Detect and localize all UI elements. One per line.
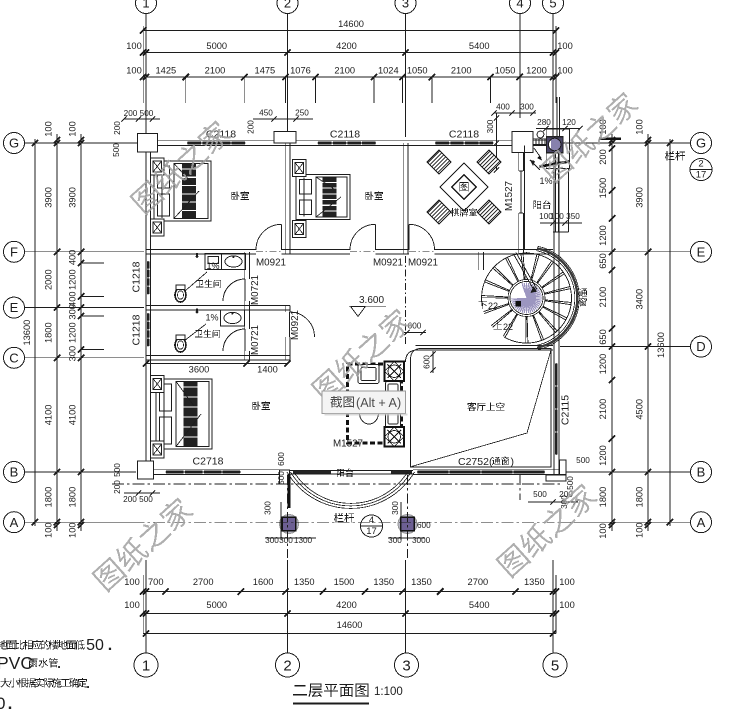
svg-text:2700: 2700 xyxy=(193,577,214,587)
svg-text:1425: 1425 xyxy=(156,66,177,76)
window C2118 bedroom2 xyxy=(318,141,377,146)
bedroom1 nightstand top xyxy=(151,158,165,175)
window C1218 bathroom1 xyxy=(146,261,151,295)
bedroom1 nightstand bottom xyxy=(151,219,165,236)
svg-text:C1218: C1218 xyxy=(131,261,143,292)
svg-text:A: A xyxy=(10,515,19,530)
balcony door opening bottom wall xyxy=(290,470,413,475)
svg-text:500: 500 xyxy=(576,456,590,465)
spiral stair entry line xyxy=(526,252,528,253)
exterior wall top (axis G) xyxy=(146,140,559,142)
svg-text:400: 400 xyxy=(496,103,510,112)
svg-text:2000: 2000 xyxy=(44,269,54,290)
svg-text:3400: 3400 xyxy=(635,289,645,310)
svg-text:M0721: M0721 xyxy=(250,275,261,305)
bathroom1 floor drain xyxy=(196,255,199,258)
svg-text:1400: 1400 xyxy=(257,365,278,375)
window C2718 bedroom3 xyxy=(166,470,241,475)
top dimension row detail xyxy=(143,76,556,78)
interior wall axis D living room top xyxy=(416,344,554,346)
svg-text:M0921: M0921 xyxy=(290,310,301,340)
svg-text:4200: 4200 xyxy=(336,41,357,51)
bed pillows xyxy=(300,180,312,195)
svg-text:G: G xyxy=(9,136,19,151)
svg-text:120: 120 xyxy=(562,118,576,127)
left dimension chain major xyxy=(56,134,58,531)
grid line A left xyxy=(25,521,136,523)
bottom dimension row total 14600 xyxy=(143,633,556,635)
svg-text:2: 2 xyxy=(283,657,291,674)
svg-text:1200: 1200 xyxy=(598,225,608,246)
hall dimension 3600 1400 xyxy=(146,363,288,365)
svg-text:4100: 4100 xyxy=(44,405,54,426)
svg-text:1:100: 1:100 xyxy=(374,686,403,698)
svg-text:A: A xyxy=(697,515,706,530)
axis bubble C left xyxy=(4,347,25,368)
svg-text:3900: 3900 xyxy=(68,187,78,208)
grid line F left xyxy=(25,251,144,253)
balcony label bottom xyxy=(337,469,354,477)
svg-text:1076: 1076 xyxy=(290,66,311,76)
svg-text:.: . xyxy=(108,637,112,654)
laundry grille bars xyxy=(534,138,547,140)
svg-text:100: 100 xyxy=(68,522,78,538)
svg-text:22: 22 xyxy=(503,322,513,332)
svg-text:M0921: M0921 xyxy=(408,258,438,269)
svg-text:3600: 3600 xyxy=(189,365,210,375)
svg-text:200: 200 xyxy=(247,120,256,134)
watermark bottom-left xyxy=(90,494,195,593)
bed quilt dark stripes xyxy=(182,164,196,219)
bed outline xyxy=(154,161,211,221)
speaker box bottom xyxy=(385,427,405,447)
axis bubble D right xyxy=(691,336,712,357)
railing thick mark on G line right xyxy=(599,137,621,139)
axis bubble F left xyxy=(4,241,25,262)
svg-text:C2118: C2118 xyxy=(330,129,360,141)
svg-text:1600: 1600 xyxy=(253,577,274,587)
svg-text:3900: 3900 xyxy=(44,187,54,208)
svg-text:1200: 1200 xyxy=(68,269,78,290)
door M0721 bathroom2 opening xyxy=(244,329,250,351)
svg-text:1500: 1500 xyxy=(598,178,608,199)
bathroom2 sink xyxy=(221,310,245,326)
svg-text:1: 1 xyxy=(142,657,150,674)
axis bubble 2 top xyxy=(277,0,298,14)
sitting area dashed border xyxy=(348,364,402,443)
door M0921 game room opening xyxy=(409,249,435,255)
window C2115 living room right xyxy=(554,363,559,455)
svg-text:E: E xyxy=(10,300,19,315)
svg-text:500: 500 xyxy=(277,471,286,485)
svg-text:650: 650 xyxy=(598,329,608,345)
svg-text:250: 250 xyxy=(295,109,309,118)
spiral stair center fan xyxy=(511,283,542,314)
svg-text:5: 5 xyxy=(549,0,556,11)
svg-text:5: 5 xyxy=(551,657,559,674)
svg-text:): ) xyxy=(511,456,515,468)
svg-text:C2115: C2115 xyxy=(560,395,572,425)
axis bubble 5 top xyxy=(543,0,564,14)
svg-text:1350: 1350 xyxy=(411,577,432,587)
right dimension chain 13600 xyxy=(669,139,671,526)
axis bubble A right xyxy=(691,512,712,533)
svg-text:50: 50 xyxy=(86,637,104,654)
svg-text:300: 300 xyxy=(520,103,534,112)
svg-text:600: 600 xyxy=(277,452,286,466)
bathroom1 counter xyxy=(205,254,222,270)
svg-text:100: 100 xyxy=(557,66,573,76)
svg-text:1300: 1300 xyxy=(294,536,313,545)
svg-text:300: 300 xyxy=(388,536,402,545)
living room void diagonal xyxy=(412,350,552,467)
slope arrow top right balcony xyxy=(534,148,541,158)
bedroom1 label xyxy=(231,191,249,200)
interior wall axis 4 game room right xyxy=(518,143,520,254)
bed outline xyxy=(296,175,350,220)
bottom dimension row 5000 4200 5400 xyxy=(143,613,556,615)
svg-text:1%: 1% xyxy=(205,313,218,323)
door M0721 bathroom1 opening xyxy=(244,279,250,301)
right dimension chain detail xyxy=(611,134,613,531)
svg-text:4100: 4100 xyxy=(68,405,78,426)
svg-text:200: 200 xyxy=(123,495,137,504)
svg-text:2100: 2100 xyxy=(334,66,355,76)
grid line E right xyxy=(560,251,690,253)
svg-text:100: 100 xyxy=(124,577,140,587)
svg-text:1050: 1050 xyxy=(407,66,428,76)
interior wall stair room left xyxy=(478,252,480,270)
svg-text:300: 300 xyxy=(265,536,279,545)
bed quilt dark stripes xyxy=(322,177,336,217)
axis bubble A left xyxy=(4,512,25,533)
svg-text:2: 2 xyxy=(698,159,703,170)
svg-text:5400: 5400 xyxy=(469,41,490,51)
svg-text:100: 100 xyxy=(559,577,575,587)
grid line D right xyxy=(560,346,690,348)
bedroom3 label xyxy=(252,401,270,410)
column axis3 xyxy=(398,515,417,534)
axis bubble 4 top xyxy=(510,0,531,14)
grid line C left xyxy=(25,357,144,359)
axis bubble 2 bottom xyxy=(276,653,300,677)
vertical dash-dot axis2 bottom xyxy=(287,475,289,558)
svg-text:1350: 1350 xyxy=(524,577,545,587)
svg-text:14600: 14600 xyxy=(338,19,364,29)
svg-text:100: 100 xyxy=(559,600,575,610)
svg-text:17: 17 xyxy=(366,526,377,537)
bathroom1 sink xyxy=(222,254,246,270)
svg-text:500: 500 xyxy=(112,143,121,157)
svg-text:(Alt + A): (Alt + A) xyxy=(356,396,401,410)
window C2118 bedroom1 xyxy=(187,141,246,146)
left chain connector ticks to wall xyxy=(81,262,104,264)
floor drain top right xyxy=(537,131,544,138)
grid line A right xyxy=(560,521,690,523)
svg-text:2100: 2100 xyxy=(205,66,226,76)
pier bottom right corner xyxy=(560,460,566,481)
interior wall corridor axis 2 lower xyxy=(284,305,286,360)
door M1527 game room east opening xyxy=(518,171,524,213)
svg-text:2100: 2100 xyxy=(451,66,472,76)
svg-text:.: . xyxy=(57,656,61,671)
svg-text:B: B xyxy=(697,465,706,480)
bed fold line xyxy=(316,197,341,217)
svg-text:17: 17 xyxy=(696,170,707,181)
bottom dimension row detail xyxy=(143,591,556,593)
svg-text:0: 0 xyxy=(0,694,5,711)
exterior wall left (axis 1) xyxy=(145,141,147,475)
svg-text:1800: 1800 xyxy=(68,487,78,508)
note text line1 xyxy=(0,640,85,650)
axis bubble E left xyxy=(4,297,25,318)
svg-text:200: 200 xyxy=(113,480,122,494)
svg-text:4: 4 xyxy=(516,0,523,11)
screenshot tooltip text xyxy=(330,396,354,408)
watermark top-left xyxy=(128,117,233,216)
svg-text:1024: 1024 xyxy=(378,66,399,76)
bathroom2 label xyxy=(195,330,220,338)
bathroom2 floor drain xyxy=(196,311,199,314)
bedroom2 nightstand top xyxy=(293,160,307,177)
grid line E left xyxy=(25,307,144,309)
interior wall axis 2 bedrooms xyxy=(284,143,286,254)
railing label bottom xyxy=(334,513,354,523)
axis bubble 1 bottom xyxy=(134,653,158,677)
interior wall bathroom right xyxy=(244,252,246,360)
note text line3 xyxy=(0,678,87,688)
svg-text:22: 22 xyxy=(488,301,498,311)
pier bottom-left corner xyxy=(138,461,154,479)
axis 3 dash-dot in hall xyxy=(405,256,407,344)
grid line G left xyxy=(25,142,144,144)
svg-text:1800: 1800 xyxy=(44,487,54,508)
svg-text:4: 4 xyxy=(369,515,374,526)
axis bubble E right xyxy=(691,241,712,262)
svg-text:13600: 13600 xyxy=(656,332,666,358)
svg-text:1%: 1% xyxy=(539,176,552,186)
axis line 3 top xyxy=(405,14,407,137)
balcony divider dark line xyxy=(288,474,291,508)
living room void boundary xyxy=(411,349,552,468)
laundry niche outline xyxy=(546,129,569,169)
interior wall axis 3 xyxy=(402,143,404,254)
svg-text:100: 100 xyxy=(635,522,645,538)
right dimension chain major xyxy=(647,134,649,531)
speaker box top xyxy=(385,362,405,382)
svg-text:.: . xyxy=(8,694,13,711)
door M0921 hall west opening xyxy=(284,312,290,337)
svg-text:100: 100 xyxy=(124,600,140,610)
pier bottom axis2 balcony xyxy=(280,470,290,484)
living room label xyxy=(467,402,504,411)
svg-text:PVC: PVC xyxy=(0,653,33,673)
pier top-left corner xyxy=(138,134,158,153)
axis line 2 top xyxy=(287,14,289,137)
vertical dash-dot axis3 bottom xyxy=(407,475,409,558)
left dimension chain detail xyxy=(80,134,82,531)
mahjong table xyxy=(440,163,488,211)
svg-text:D: D xyxy=(696,339,705,354)
axis bubble G left xyxy=(4,133,25,154)
svg-text:100: 100 xyxy=(550,212,564,221)
svg-text:5000: 5000 xyxy=(206,41,227,51)
axis bubble B left xyxy=(4,462,25,483)
watermark bottom-right xyxy=(494,480,599,579)
pier top right near axis4 xyxy=(512,132,533,153)
svg-text:1800: 1800 xyxy=(635,487,645,508)
svg-text:300: 300 xyxy=(68,304,78,320)
axis line 4 top xyxy=(519,14,521,118)
axis bubble 3 top xyxy=(395,0,416,14)
svg-text:M0721: M0721 xyxy=(250,325,261,355)
svg-text:C: C xyxy=(9,350,18,365)
top dimension row 5000 4200 5400 xyxy=(143,52,556,54)
watermark top-right xyxy=(539,89,641,184)
balcony label top right xyxy=(533,200,550,209)
sitting armchair top xyxy=(358,365,379,384)
window through label xyxy=(579,288,588,306)
window C2118 game room xyxy=(435,141,494,146)
svg-text:2100: 2100 xyxy=(598,399,608,420)
interior wall axis E horizontal bathrooms xyxy=(146,304,290,306)
axis line 5 top xyxy=(552,14,554,137)
vertical dash-dot axis4 bottom xyxy=(519,475,521,500)
bathroom2 toilet xyxy=(175,338,186,352)
svg-text:1200: 1200 xyxy=(598,354,608,375)
top right railing lines xyxy=(556,97,558,137)
svg-text:4200: 4200 xyxy=(336,600,357,610)
bed pillows xyxy=(160,384,172,411)
svg-text:600: 600 xyxy=(423,355,432,369)
svg-text:300: 300 xyxy=(391,501,400,515)
sitting couch right xyxy=(386,382,401,428)
svg-text:3: 3 xyxy=(402,0,409,11)
svg-text:100: 100 xyxy=(126,41,142,51)
svg-text:650: 650 xyxy=(598,253,608,269)
svg-text:C2752(: C2752( xyxy=(458,456,493,468)
bed quilt outline xyxy=(174,164,208,219)
svg-text:100: 100 xyxy=(635,119,645,135)
svg-text:B: B xyxy=(10,465,19,480)
svg-text:3.600: 3.600 xyxy=(359,295,384,306)
svg-text:500: 500 xyxy=(533,490,547,499)
bed quilt outline xyxy=(316,177,347,217)
svg-text:F: F xyxy=(10,244,18,259)
bottom axis extension lines xyxy=(145,560,147,653)
svg-text:1: 1 xyxy=(142,0,149,11)
bed outline xyxy=(156,379,212,449)
svg-text:200: 200 xyxy=(113,121,122,135)
bed quilt outline xyxy=(176,382,209,447)
laundry double rail vertical xyxy=(555,153,557,232)
grid line G right xyxy=(560,142,690,144)
svg-text:M0921: M0921 xyxy=(256,258,286,269)
svg-text:100: 100 xyxy=(557,41,573,51)
door M0921 bedroom1 opening xyxy=(256,249,282,255)
balcony top-right inner boundary xyxy=(524,146,526,250)
clothes pole thick line xyxy=(540,162,570,167)
svg-text:2100: 2100 xyxy=(598,287,608,308)
bathroom1 toilet xyxy=(175,288,186,302)
svg-text:13600: 13600 xyxy=(22,320,32,346)
svg-text:2700: 2700 xyxy=(468,577,489,587)
svg-text:1800: 1800 xyxy=(44,322,54,343)
bed fold line xyxy=(174,191,199,219)
watermark center xyxy=(309,305,414,404)
svg-text:300: 300 xyxy=(68,346,78,362)
svg-text:3: 3 xyxy=(402,657,410,674)
svg-text:100: 100 xyxy=(44,121,54,137)
svg-text:100: 100 xyxy=(126,66,142,76)
svg-text:M1527: M1527 xyxy=(333,439,363,450)
living room corner fillet xyxy=(406,350,419,362)
exterior wall right (axis 5) xyxy=(553,141,555,475)
svg-text:G: G xyxy=(696,136,706,151)
svg-text:1350: 1350 xyxy=(294,577,315,587)
window C2752 living room bottom xyxy=(417,470,545,475)
mahjong chairs xyxy=(427,150,451,174)
svg-text:300: 300 xyxy=(279,536,293,545)
svg-text:3000: 3000 xyxy=(412,536,431,545)
svg-text:1350: 1350 xyxy=(373,577,394,587)
pier top mid window bump xyxy=(274,132,296,144)
bed quilt dark stripes xyxy=(183,382,197,447)
title second floor plan xyxy=(293,683,368,697)
bedroom2 nightstand bottom xyxy=(293,221,307,238)
window C1218 bathroom2 xyxy=(146,313,151,347)
bedroom3 nightstand top xyxy=(151,376,165,393)
railing label right xyxy=(665,151,685,161)
interior wall axis F horizontal xyxy=(146,249,553,251)
top dimension extension lines xyxy=(145,77,147,103)
svg-text:300: 300 xyxy=(486,119,495,133)
svg-text:500: 500 xyxy=(140,109,154,118)
svg-text:E: E xyxy=(697,244,706,259)
svg-text:100: 100 xyxy=(68,121,78,137)
svg-text:C2718: C2718 xyxy=(193,456,224,468)
axis bubble G right xyxy=(691,133,712,154)
washing basin square xyxy=(547,137,564,153)
top dimension row total 14600 xyxy=(143,30,556,32)
balcony dash-dot line xyxy=(112,483,560,485)
svg-text:1800: 1800 xyxy=(598,487,608,508)
svg-text:M0921: M0921 xyxy=(373,258,403,269)
svg-text:100: 100 xyxy=(598,523,608,539)
svg-text:5000: 5000 xyxy=(206,600,227,610)
svg-text:700: 700 xyxy=(148,577,164,587)
axis bubble 5 bottom xyxy=(543,653,567,677)
svg-text:500: 500 xyxy=(566,476,575,490)
balcony arc railing xyxy=(287,472,415,508)
svg-text:1475: 1475 xyxy=(255,66,276,76)
bedroom2 label xyxy=(365,191,383,200)
svg-text:100: 100 xyxy=(44,522,54,538)
column axis2 xyxy=(280,515,299,534)
svg-text:280: 280 xyxy=(537,118,551,127)
curved window arc right of stair xyxy=(537,251,575,346)
interior wall axis C horizontal xyxy=(146,355,290,357)
detail bubble 4/17 bottom xyxy=(361,515,383,537)
svg-text:14600: 14600 xyxy=(337,620,363,630)
game room label xyxy=(451,208,477,216)
svg-text:.: . xyxy=(86,676,90,691)
detail bubble 2/17 xyxy=(690,159,712,181)
svg-text:M1527: M1527 xyxy=(504,181,515,211)
svg-text:3900: 3900 xyxy=(635,187,645,208)
svg-text:C2118: C2118 xyxy=(449,129,479,141)
axis bubble 3 bottom xyxy=(395,653,419,677)
